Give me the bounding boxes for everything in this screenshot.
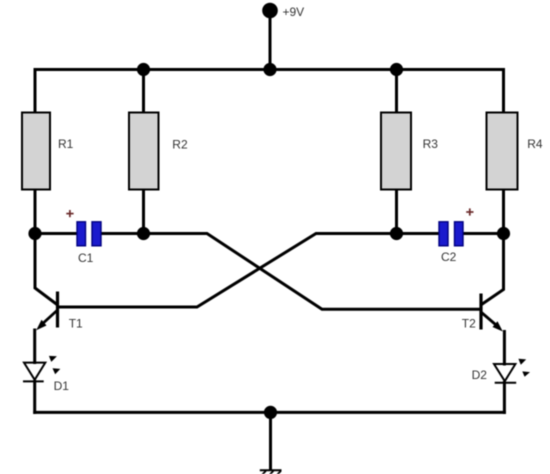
- svg-text:R1: R1: [58, 137, 74, 151]
- svg-text:D1: D1: [54, 379, 70, 393]
- svg-text:R4: R4: [527, 137, 543, 151]
- svg-text:C1: C1: [78, 251, 94, 265]
- svg-text:+9V: +9V: [283, 5, 305, 19]
- svg-text:R3: R3: [423, 137, 439, 151]
- svg-text:C2: C2: [441, 250, 457, 264]
- svg-text:D2: D2: [472, 368, 488, 382]
- svg-text:R2: R2: [172, 138, 188, 152]
- svg-text:T1: T1: [69, 317, 83, 331]
- svg-text:T2: T2: [462, 317, 476, 331]
